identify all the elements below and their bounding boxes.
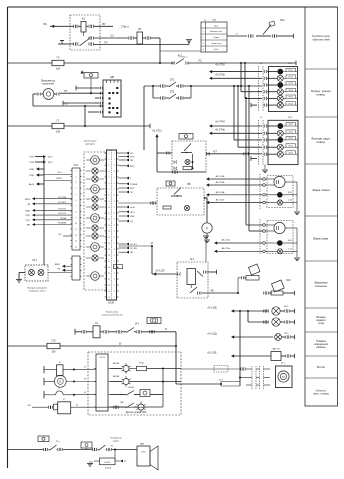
junction down to wiper block	[239, 310, 241, 312]
svg-text:зв.Ш: зв.Ш	[130, 207, 135, 209]
wire module A output right	[206, 153, 262, 155]
svg-text:2: 2	[109, 159, 110, 161]
fuse on bus 3	[47, 343, 60, 348]
wire switch 2P1 to lamps	[184, 85, 262, 87]
svg-text:А1-ХТ3в: А1-ХТ3в	[215, 73, 225, 76]
cluster strip pin 6	[105, 182, 107, 184]
border frame top edge	[8, 6, 338, 8]
front lamp label box 6	[286, 102, 296, 105]
svg-text:Ш: Ш	[84, 379, 86, 381]
row3 wire to runner	[134, 394, 140, 396]
svg-text:3: 3	[114, 273, 115, 275]
license lamp ground	[16, 279, 22, 281]
relay A7 dashed box	[177, 262, 208, 298]
wire flasher output to connector block	[60, 92, 103, 94]
front turn lamp 5	[277, 95, 283, 101]
caption box 2	[305, 68, 338, 70]
left motor output wire	[66, 381, 96, 383]
svg-text:4: 4	[114, 171, 115, 173]
instrument cluster dashed box	[84, 152, 106, 290]
runner to headlamp right row1	[245, 97, 247, 99]
fuse icon box above block	[84, 73, 98, 79]
strip X3 pin 3	[71, 269, 73, 271]
svg-text:М: М	[59, 381, 61, 384]
cluster stub РВ3	[119, 215, 127, 217]
svg-text:5Ф.А1: 5Ф.А1	[128, 386, 135, 389]
interior unit dashed box	[88, 352, 181, 415]
switch module B dashed box	[157, 188, 204, 215]
front turn lamp 1	[278, 69, 283, 74]
rear lamp block pin row 5	[263, 153, 265, 156]
dome row2 wire to runner	[129, 381, 181, 383]
block C7 body	[58, 402, 71, 414]
pin X1 relay row1 left	[73, 25, 75, 28]
svg-text:25: 25	[108, 297, 110, 299]
front lamp block pin row 4	[263, 90, 265, 93]
svg-text:Своб.: Своб.	[214, 49, 219, 51]
terminal at right end of bus 1	[295, 61, 297, 65]
svg-text:А1-Х10Б: А1-Х10Б	[216, 175, 225, 178]
svg-text:6: 6	[75, 200, 76, 202]
switch HA1 lever	[263, 25, 271, 35]
svg-text:КЛ1.5: КЛ1.5	[289, 97, 293, 99]
svg-text:1: 1	[114, 153, 115, 155]
cluster strip pin 24	[105, 290, 107, 292]
module A bottom wire	[157, 171, 206, 173]
svg-text:15: 15	[108, 237, 110, 239]
dome lamp row 2 wire	[110, 381, 122, 383]
svg-text:КЛ2.4: КЛ2.4	[289, 145, 293, 147]
rear turn lamp 5	[277, 151, 283, 157]
license lamp ground wire	[19, 272, 25, 274]
caption column outline	[305, 7, 338, 406]
svg-text:РО-ХВ: РО-ХВ	[130, 248, 137, 250]
module B toggle lever	[171, 195, 182, 197]
svg-text:18: 18	[108, 255, 110, 257]
bottom switch 1 contact	[49, 449, 50, 451]
cluster indicator 12	[91, 272, 100, 281]
svg-text:повор.: повор.	[316, 93, 325, 97]
svg-text:5А1.А1: 5А1.А1	[113, 362, 121, 365]
svg-text:КЛ2.2: КЛ2.2	[289, 132, 293, 134]
front lamp block ground stub	[251, 104, 257, 106]
svg-text:8: 8	[114, 249, 115, 251]
rear lamp label box 2	[286, 130, 296, 133]
cluster stub ПЗ	[119, 191, 127, 193]
front turn lamp 6	[277, 102, 283, 108]
cluster strip pin 5	[105, 176, 107, 178]
svg-text:РУЧВВ: РУЧВВ	[130, 184, 138, 186]
cluster indicator 11	[92, 255, 98, 261]
svg-text:ЛБ: ЛБ	[210, 291, 214, 293]
svg-text:ПРН: ПРН	[29, 175, 34, 177]
caption box 4	[305, 163, 338, 165]
connector strip X4.1 outline	[72, 168, 80, 250]
cluster stub Т	[119, 177, 127, 179]
cluster strip pin 19	[105, 260, 107, 262]
row3 wire	[110, 394, 126, 396]
svg-text:ВШУ1: ВШУ1	[56, 178, 62, 180]
front lamp block pin row 2	[263, 77, 265, 80]
reversing lamp 2 pins	[263, 321, 265, 324]
switch 2P2 contact	[166, 97, 169, 99]
svg-text:Х4.1: Х4.1	[74, 164, 80, 167]
svg-text:21: 21	[108, 273, 110, 275]
svg-text:ПНЕ: ПНЕ	[29, 169, 34, 171]
wire flasher input loop	[33, 93, 37, 95]
svg-text:ЖТ: ЖТ	[213, 150, 217, 153]
block C7 output wire	[71, 406, 146, 408]
svg-text:1: 1	[109, 153, 110, 155]
connector block X8 outline	[103, 80, 121, 117]
svg-text:трубка: трубка	[113, 440, 120, 442]
bottom wire mid segment	[63, 449, 92, 451]
runner 2 to rear lamp block	[237, 85, 239, 87]
svg-text:РО-Х12А: РО-Х12А	[58, 196, 67, 199]
cab lamp	[275, 334, 282, 341]
cluster strip pin 20	[105, 266, 107, 268]
block C7 side appendage	[53, 404, 57, 410]
svg-text:19: 19	[108, 261, 110, 263]
svg-text:ЗВУК: ЗВУК	[25, 199, 31, 201]
svg-text:23: 23	[108, 285, 110, 287]
motor connector pin row	[246, 377, 252, 379]
svg-text:А1-Х12В: А1-Х12В	[207, 307, 217, 310]
cluster strip pin 2	[105, 158, 107, 160]
svg-text:3.1УЗ: 3.1УЗ	[99, 357, 105, 359]
svg-text:12: 12	[108, 219, 110, 221]
svg-text:КЛ2.5: КЛ2.5	[289, 152, 293, 154]
headlamp right common vertical and ground	[296, 228, 298, 257]
speaker body	[137, 446, 150, 466]
headlamp left main bulb	[274, 176, 285, 187]
caption box 5	[305, 215, 338, 217]
license lamp 2	[38, 270, 44, 276]
svg-text:П3.1: П3.1	[284, 333, 289, 335]
svg-text:9: 9	[109, 201, 110, 203]
svg-text:5: 5	[114, 285, 115, 287]
svg-text:ЖО: ЖО	[28, 405, 32, 407]
ground at end of relay common wire	[188, 41, 190, 45]
svg-text:9: 9	[114, 201, 115, 203]
headlamp left marker lamp	[277, 192, 283, 198]
cluster strip pin 18	[105, 254, 107, 256]
left resistor component vertical	[44, 369, 57, 371]
arrow from ID box	[115, 460, 120, 462]
vertical wire A1-XT31	[156, 136, 158, 172]
svg-text:Фонари освещения: Фонари освещения	[27, 287, 47, 290]
strip X4.1 pin 13	[71, 240, 73, 242]
svg-text:1: 1	[75, 171, 76, 173]
caption box 9	[305, 355, 338, 357]
cluster stub ППЗ	[119, 211, 127, 213]
headlamp R feed pins	[263, 224, 266, 227]
left motor terminal bar	[43, 378, 45, 385]
svg-text:7: 7	[75, 206, 76, 208]
cluster indicator 10	[91, 243, 100, 252]
svg-text:1: 1	[114, 207, 115, 209]
pin relay row1 right	[86, 25, 88, 27]
svg-text:указателей: указателей	[42, 82, 55, 85]
small box on strip right	[114, 265, 123, 269]
cluster indicator 1	[91, 156, 100, 165]
relay K1 dashed enclosure	[70, 15, 100, 50]
cluster strip pin 23	[105, 284, 107, 286]
wire through dashed box	[181, 368, 240, 370]
headlamp right marker lamp	[277, 240, 283, 246]
cluster strip pin 16	[105, 242, 107, 244]
cluster indicator 8	[92, 225, 98, 231]
strip X4.1 pin 12	[71, 234, 73, 236]
svg-text:24: 24	[108, 291, 110, 293]
switch 2P1 contact	[166, 85, 169, 87]
row4 contact	[110, 406, 126, 408]
wire from table S10 to switch HA1	[227, 35, 247, 37]
svg-text:2: 2	[114, 213, 115, 215]
svg-text:хода: хода	[318, 322, 324, 325]
svg-text:кабины: кабины	[316, 345, 325, 349]
svg-text:а): а)	[204, 20, 206, 22]
left thermal switch terminal bar	[43, 391, 45, 398]
svg-text:сигналы: сигналы	[315, 284, 328, 288]
double wire to motor connector	[221, 381, 240, 383]
strip X4.1 pin 10	[71, 222, 73, 224]
left thermal switch arc	[44, 394, 56, 396]
svg-text:Фара левая: Фара левая	[313, 188, 330, 192]
junction vertical joining switch outputs	[190, 86, 192, 98]
relay K1 armature diagonal	[83, 32, 85, 36]
headlamp left common vertical and ground	[296, 182, 298, 211]
svg-text:11: 11	[108, 213, 110, 215]
motor connector strips	[251, 366, 253, 389]
relay A7 output wire to terminal	[207, 271, 217, 273]
horn HA2 body	[272, 280, 285, 292]
reversing lamp 2 right pin	[280, 321, 284, 323]
module A left pin row 2	[173, 161, 175, 164]
cluster stub зв.Ш	[119, 206, 127, 208]
strip X4.1 pin 9	[71, 216, 73, 218]
connector pair 2 on wire row2	[143, 37, 146, 39]
terminal at right end of bus 2	[149, 124, 151, 128]
front lamp block pin row 1	[263, 70, 265, 73]
bottom wire to speaker	[112, 449, 137, 451]
svg-text:А1-Х10А: А1-Х10А	[216, 191, 225, 194]
module A left pin row 3	[173, 167, 175, 170]
svg-text:6: 6	[114, 291, 115, 293]
cluster stub ТД	[119, 220, 127, 222]
switch module A dashed box	[172, 141, 206, 172]
svg-text:Г16: Г16	[52, 340, 57, 343]
pin relay row3 left	[73, 43, 75, 46]
svg-text:16: 16	[108, 243, 110, 245]
cluster strip pin 7	[105, 188, 107, 190]
svg-text:Ш: Ш	[84, 392, 86, 394]
svg-text:8: 8	[75, 211, 76, 213]
front lamp block pin row 3	[263, 84, 265, 87]
cluster indicator 7	[91, 214, 100, 223]
front lamp block housing	[269, 67, 298, 112]
headlamp left bulb output wire	[285, 181, 297, 183]
pin relay row2 right	[88, 37, 90, 40]
svg-text:А1-Х12П: А1-Х12П	[155, 270, 165, 273]
icon box above module B	[166, 181, 175, 186]
feed wire from cluster vertical to switches	[144, 85, 160, 87]
svg-text:6: 6	[109, 183, 110, 185]
svg-text:5: 5	[109, 177, 110, 179]
cluster strip pin 13	[105, 224, 107, 226]
svg-text:Прерыватель: Прерыватель	[41, 81, 56, 83]
left resistor output wire	[63, 368, 96, 371]
svg-text:РУЗ: РУЗ	[130, 157, 135, 159]
pin HA1 left	[248, 35, 250, 38]
front lamp label box 4	[286, 88, 296, 91]
cluster strip pin 25	[105, 296, 107, 298]
interior strip pin	[94, 406, 96, 408]
wire horn HA2 to terminal	[283, 292, 294, 294]
switch 2P1 pins left	[160, 85, 162, 88]
cluster stub ПВ	[119, 159, 127, 161]
cab lamp right pin	[282, 336, 286, 338]
svg-text:ЧАУ К3: ЧАУ К3	[272, 348, 280, 351]
svg-text:Датчик уровня ПАЗ: Датчик уровня ПАЗ	[126, 411, 147, 414]
bottom switch 2 pins	[91, 448, 93, 451]
wire relay K1 contact NO	[94, 37, 128, 39]
svg-text:ХЗ.1: ХЗ.1	[32, 260, 38, 262]
svg-text:КЛ2.1: КЛ2.1	[289, 124, 293, 126]
cluster strip pin 12	[105, 218, 107, 220]
bus3 joins runner	[175, 345, 177, 347]
main feed bus wire 1	[8, 62, 297, 64]
svg-text:ПДУ: ПДУ	[26, 215, 31, 217]
vertical drop from row2 to bus1	[159, 38, 161, 63]
svg-text:2: 2	[114, 159, 115, 161]
interior strip pin	[94, 368, 96, 370]
terminal end of HA1 wire	[293, 34, 295, 38]
switch 2P1 pins right	[176, 85, 178, 87]
svg-text:выключателей (С-Л): выключателей (С-Л)	[102, 314, 123, 317]
reversing lamp 1 right pin	[280, 310, 284, 312]
svg-text:7: 7	[109, 189, 110, 191]
svg-text:8: 8	[109, 195, 110, 197]
cluster strip pin 4	[105, 170, 107, 172]
svg-text:В 10З: В 10З	[104, 462, 110, 464]
junction below to ground box	[114, 448, 116, 450]
strip X4.1 pin 14	[71, 246, 73, 248]
headlamp right bulb output wire	[285, 227, 297, 229]
front turn lamp 4	[277, 89, 283, 95]
svg-text:45.1: 45.1	[178, 56, 183, 58]
cluster strip pin 17	[105, 248, 107, 250]
junction 14.1 on lower wire	[176, 383, 221, 385]
horn HA2 base pins	[263, 292, 265, 295]
switch 2P2 pins right	[176, 97, 178, 99]
pin HA1 right	[271, 35, 273, 38]
svg-text:14: 14	[108, 231, 110, 233]
cluster strip pin 3	[105, 164, 107, 166]
svg-text:Ш8: Ш8	[110, 75, 114, 79]
front lamp block pin row 5	[263, 97, 265, 100]
module B resistor	[163, 206, 171, 209]
stub wire into X8 row4	[63, 102, 95, 104]
svg-text:10А: 10А	[56, 131, 61, 134]
wiper switch pin right	[134, 331, 136, 333]
headlamp left dashed housing	[267, 176, 293, 208]
rear lamp block pin row 2	[263, 132, 265, 135]
row3 contact	[126, 391, 134, 396]
svg-text:НА2: НА2	[286, 279, 291, 282]
wire license box to strip X3	[48, 272, 72, 274]
cluster stub РУЗ	[119, 156, 127, 158]
rear lamp block pin row 4	[263, 146, 265, 149]
svg-text:8: 8	[114, 195, 115, 197]
svg-text:4: 4	[114, 279, 115, 281]
cluster stub ЖГ	[119, 152, 127, 154]
motor connector pin row	[246, 368, 252, 370]
relay A7 left pin	[177, 273, 179, 276]
cluster stub ВЛУ	[119, 187, 127, 189]
svg-text:6: 6	[114, 237, 115, 239]
cluster stub ЛВ	[119, 251, 127, 253]
svg-text:ПТ: ПТ	[64, 90, 68, 93]
svg-text:ПРЧ: ПРЧ	[30, 157, 35, 159]
cluster indicator 4	[91, 185, 100, 194]
bottom switch 1 pin right	[56, 449, 59, 451]
icon box above wiper wire	[147, 318, 161, 324]
wiper switch contact	[122, 331, 126, 333]
svg-text:Зажиг. откл: Зажиг. откл	[211, 43, 221, 45]
wiper wire segment 2	[100, 331, 103, 333]
headlamp right turn lamp	[277, 249, 282, 254]
wire HA1 to terminal	[277, 35, 293, 37]
junction split to two lamps	[247, 310, 249, 312]
svg-text:14.с: 14.с	[56, 441, 60, 443]
interior strip pin	[94, 381, 96, 383]
svg-text:10: 10	[75, 223, 77, 225]
svg-text:Телефонная: Телефонная	[110, 437, 122, 440]
strip X3 pin 1	[71, 258, 73, 260]
table row line 4	[201, 45, 227, 47]
cluster indicator 3	[92, 176, 98, 182]
relay A7 bottom wire	[190, 285, 192, 288]
svg-text:В2.2: В2.2	[48, 162, 53, 164]
cluster indicator 2	[92, 168, 98, 174]
horn C3 base	[246, 276, 259, 281]
svg-text:12.1: 12.1	[190, 258, 195, 261]
pin relay row3 right	[88, 43, 90, 46]
wire into module A row1	[157, 152, 172, 154]
license lamp 1	[29, 270, 35, 276]
cluster strip pin 8	[105, 194, 107, 196]
svg-text:12: 12	[75, 235, 77, 237]
rear unit K3 box	[271, 352, 281, 361]
runner from bus1 to front lamp row3	[240, 62, 242, 64]
svg-text:7: 7	[114, 243, 115, 245]
svg-text:КП.ВВ: КП.ВВ	[60, 218, 66, 220]
svg-text:4: 4	[109, 171, 110, 173]
icon box 2 on bottom wire	[81, 442, 92, 448]
svg-text:НА1: НА1	[280, 19, 285, 22]
dome lamp row 1 wire	[110, 368, 122, 370]
headlamp L connector strip	[259, 174, 261, 210]
svg-text:5: 5	[75, 194, 76, 196]
strip X4.1 pin 1	[71, 170, 73, 172]
caption box 10	[305, 377, 338, 379]
rear turn lamp 2	[277, 130, 283, 136]
rear turn lamp 3	[278, 137, 283, 142]
left thermal switch output wire	[63, 394, 96, 396]
cluster strip pin 15	[105, 236, 107, 238]
caption box 3	[305, 116, 338, 118]
